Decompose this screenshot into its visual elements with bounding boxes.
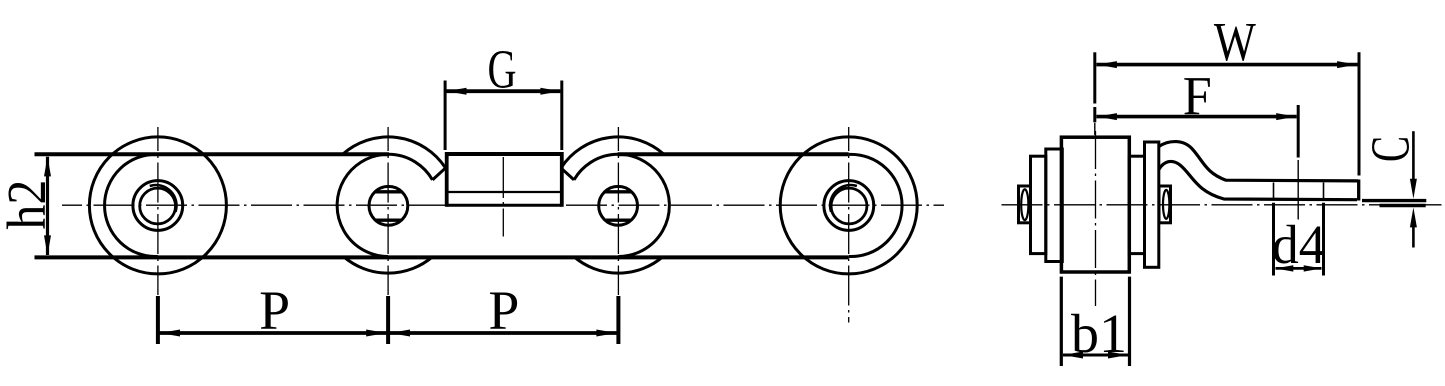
link plate C [1129, 156, 1144, 253]
roller R1 outer circle [89, 137, 226, 274]
dimension P arrow left span2 [390, 330, 410, 337]
pin circle R2 [369, 186, 408, 225]
hole edge right on tab [1323, 183, 1325, 199]
roller R2 bottom arc [344, 257, 433, 273]
dimension b1 line [1063, 354, 1128, 357]
dimension C arrow down [1410, 179, 1417, 199]
attachment block bottom edge [447, 204, 562, 207]
plate-end arc at R1 [105, 154, 158, 256]
dimension G extension line right [560, 81, 563, 151]
dimension P line [158, 331, 618, 335]
dimension d4 arrow left [1275, 265, 1293, 271]
node attachment centerline vertical [502, 157, 504, 237]
attachment tab end edge [1357, 180, 1360, 201]
svg-text:P: P [259, 280, 290, 341]
roller R2 hook outer arc (bent plate over roller) [343, 137, 446, 168]
dimension F arrow left [1097, 113, 1117, 120]
wire: horizontal centerline right view [1002, 204, 1442, 206]
bushing circle R4 [824, 181, 874, 231]
pin chord bottom R3 [605, 218, 632, 221]
dimension b1 arrow left [1063, 352, 1083, 359]
pin end cap left [1019, 186, 1031, 223]
pin chord bottom R2 [375, 218, 402, 221]
svg-text:G: G [488, 39, 517, 100]
dimension C line upper [1412, 131, 1415, 186]
dimension d4 line [1276, 267, 1322, 270]
attachment block top edge [445, 152, 564, 156]
roller R3 bottom arc [574, 257, 663, 273]
svg-text:C: C [1360, 136, 1421, 162]
dimension W arrow right [1337, 61, 1357, 68]
pin chord top R2 [375, 190, 402, 193]
dimension h2 line [46, 157, 49, 255]
node R4 centerline vertical [848, 127, 850, 323]
svg-text:d4: d4 [1272, 214, 1326, 275]
plate-end arc at R4 [849, 154, 902, 256]
link plate A [1031, 156, 1046, 253]
dimension F line [1096, 115, 1296, 119]
dimension P tick 2 [386, 296, 390, 344]
dimension d4 extension right [1322, 203, 1325, 276]
dimension C line lower [1412, 224, 1415, 248]
dimension C lower extension (centerline level) [1380, 204, 1426, 207]
pin circle R3 [599, 186, 638, 225]
pin spiral arc R1 [150, 185, 177, 212]
svg-text:h2: h2 [0, 180, 57, 230]
dimension P arrow left span1 [160, 330, 180, 337]
hole centerline [1297, 160, 1299, 220]
roller R3 hook outer arc (mirror) [561, 137, 664, 168]
dimension d4 extension left [1272, 203, 1275, 276]
wire: horizontal centerline left view [62, 204, 944, 206]
roller cylinder [1061, 137, 1129, 272]
dimension G arrow right [540, 88, 560, 95]
bent attachment upper surface [1159, 142, 1358, 181]
dimension P tick 3 [616, 296, 620, 344]
dimension h2 arrow up [44, 156, 51, 176]
wire: top link plate line segment 2 [618, 152, 849, 156]
dimension P arrow right span1 [366, 330, 386, 337]
dimension W line [1096, 63, 1357, 67]
node R2 centerline vertical [387, 127, 389, 295]
cotter lens right [1163, 190, 1169, 219]
pin spiral arc R4 [830, 185, 857, 212]
wire: bottom link plate line [35, 255, 849, 259]
dimension P tick 1 [156, 296, 160, 344]
attachment plate vertical part D [1145, 142, 1159, 267]
dimension F arrow right [1276, 113, 1296, 120]
bent attachment lower surface [1159, 161, 1357, 199]
dimension C upper extension (tab bottom extended) [1362, 199, 1426, 202]
dimension b1 extension right [1128, 277, 1131, 366]
pin chord top R3 [605, 190, 632, 193]
svg-text:F: F [1183, 65, 1212, 126]
dimension G line [447, 89, 561, 93]
node R1 centerline vertical [157, 127, 159, 295]
dimension b1 extension left [1060, 277, 1063, 366]
node roller vertical centerline [1095, 131, 1097, 306]
dimension W left extension (dash) [1093, 52, 1096, 103]
link plate B [1046, 149, 1063, 262]
pin end cap right [1159, 186, 1171, 223]
dimension G arrow left [447, 88, 467, 95]
dimension W right extension [1358, 52, 1361, 175]
attachment block inner line [447, 191, 562, 193]
dimension G extension line left [444, 81, 447, 151]
dimension W arrow left [1097, 61, 1117, 68]
hole edge left on tab [1273, 183, 1275, 199]
bent plate end face line R2 [433, 168, 446, 180]
attachment block left edge [445, 152, 449, 207]
node R3 centerline vertical [617, 127, 619, 295]
attachment block right edge [560, 152, 564, 207]
dimension b1 arrow right [1108, 352, 1128, 359]
svg-text:W: W [1214, 11, 1256, 72]
cotter lens left [1021, 189, 1028, 220]
plate-end arc at R3 [574, 154, 669, 256]
plate-end arc at R2 [337, 154, 432, 256]
pin circle R1 [140, 188, 176, 224]
bushing circle R1 [133, 181, 183, 231]
svg-text:b1: b1 [1071, 303, 1127, 364]
bent plate end face line R3 [561, 168, 574, 180]
roller R4 outer circle [780, 137, 917, 274]
svg-text:P: P [488, 280, 519, 341]
dimension F right extension [1297, 105, 1300, 158]
dimension C arrow up [1410, 207, 1417, 227]
dimension d4 arrow right [1304, 265, 1322, 271]
pin circle R4 [831, 188, 867, 224]
dimension P arrow right span2 [596, 330, 616, 337]
wire: top link plate line segment 1 [35, 152, 390, 156]
dimension h2 arrow down [44, 235, 51, 255]
